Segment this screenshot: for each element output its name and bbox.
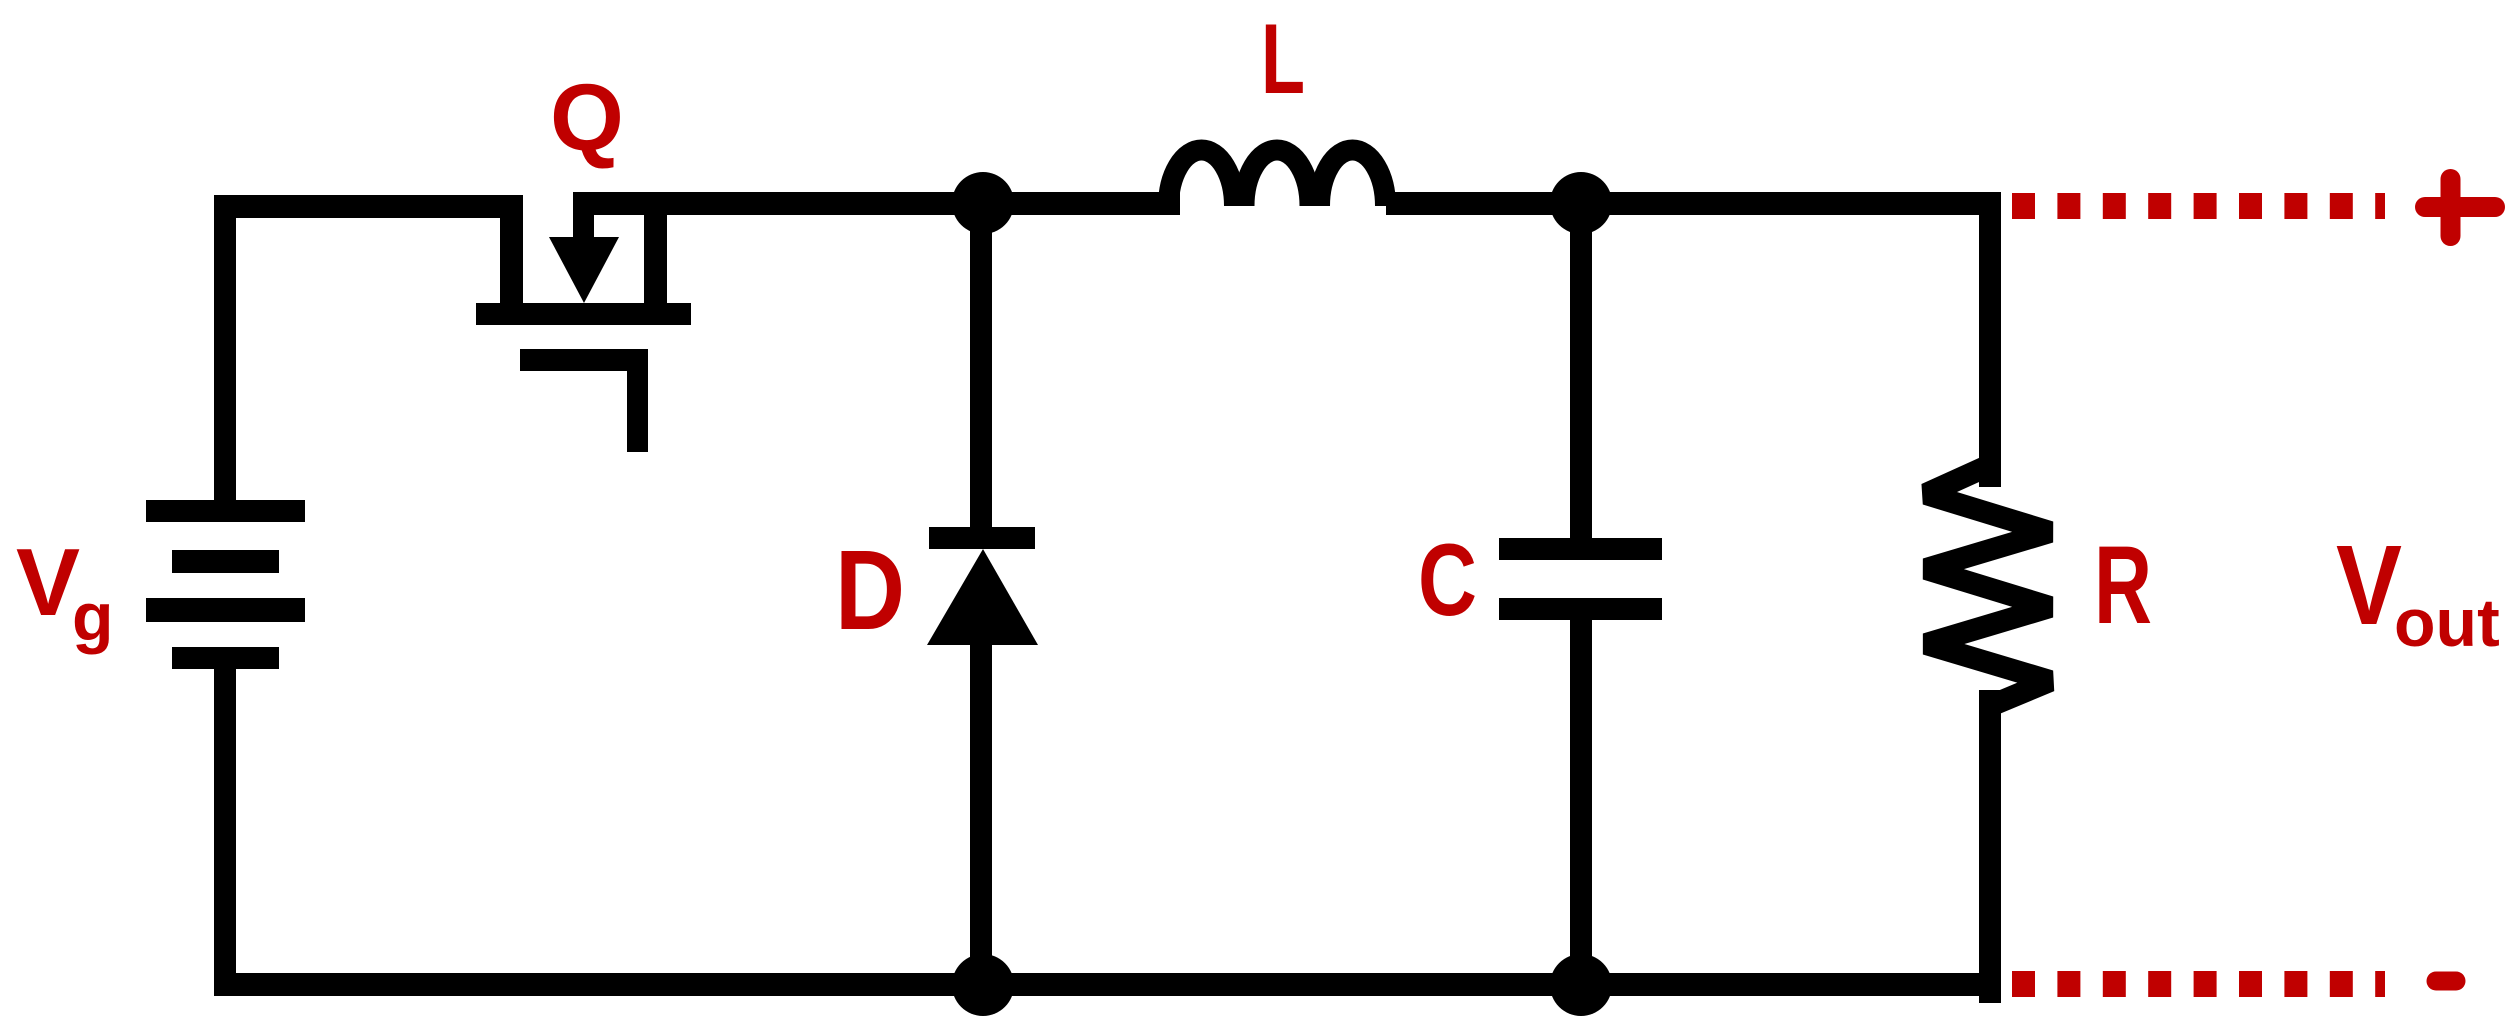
transistor Q (p-MOSFET) (476, 192, 691, 452)
wire top right segment (inductor to output corner) (1386, 192, 2001, 215)
svg-text:V: V (16, 529, 80, 636)
node junction top-right (output node) (1550, 172, 1612, 234)
svg-text:D: D (835, 527, 905, 653)
wire left rail upper (top wire down to Vg) (214, 195, 236, 522)
minus terminal sign (2436, 972, 2456, 991)
label Vg (16, 529, 114, 655)
node junction bottom-left (952, 954, 1014, 1016)
diode D (927, 203, 1038, 985)
wire top-left segment (Vg plus terminal to Q drain) (214, 195, 523, 218)
svg-text:out: out (2394, 585, 2500, 661)
wire bottom rail (214, 973, 2001, 996)
node junction bottom-right (1550, 954, 1612, 1016)
node junction top-left (diode/switch node) (952, 172, 1014, 234)
dashed output lead minus side (2012, 971, 2385, 997)
inductor L (1169, 150, 1386, 206)
dashed output lead plus side (2012, 193, 2385, 219)
capacitor C (1499, 203, 1662, 985)
svg-text:L: L (1261, 3, 1305, 114)
svg-text:C: C (1418, 523, 1477, 637)
resistor R (1926, 192, 2050, 1003)
wire top middle segment (Q source to inductor) (573, 192, 1180, 215)
svg-text:V: V (2336, 522, 2402, 648)
voltage source Vg (battery) (146, 500, 305, 669)
svg-text:Q: Q (550, 65, 624, 171)
plus terminal sign (2425, 179, 2495, 236)
label Vout (2336, 522, 2500, 661)
wire left rail lower (Vg down to bottom wire) (214, 669, 236, 996)
svg-text:R: R (2094, 524, 2152, 647)
svg-text:g: g (72, 579, 114, 655)
